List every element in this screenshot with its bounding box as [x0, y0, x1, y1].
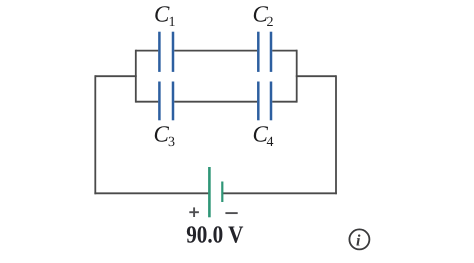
- wire middle left stub: [95, 75, 136, 77]
- wire middle right stub: [296, 75, 336, 77]
- wire top edge middle segment: [174, 50, 257, 52]
- wire outer left vertical: [94, 75, 96, 194]
- battery plus sign: [189, 207, 199, 217]
- wire bottom edge right segment: [272, 101, 297, 103]
- wire bottom battery to right: [222, 192, 337, 194]
- wire bottom edge left segment: [136, 101, 159, 103]
- battery negative plate: [221, 182, 223, 203]
- battery positive plate: [208, 167, 211, 217]
- wire bottom left to battery: [94, 192, 209, 194]
- capacitor C3: [159, 82, 173, 121]
- capacitor C1: [159, 32, 173, 72]
- capacitor C4: [258, 82, 271, 121]
- svg-text:4: 4: [267, 135, 274, 150]
- svg-text:3: 3: [168, 135, 175, 150]
- info icon: [349, 229, 369, 249]
- wire top edge left segment: [136, 50, 159, 52]
- wire left edge of parallel block: [135, 50, 137, 103]
- wire bottom edge middle segment: [174, 101, 257, 103]
- wire right edge of parallel block: [296, 50, 298, 103]
- svg-text:1: 1: [169, 15, 176, 30]
- svg-text:2: 2: [267, 15, 274, 30]
- battery minus sign: [225, 212, 237, 214]
- capacitor C2: [258, 32, 271, 72]
- wire top edge right segment: [272, 50, 297, 52]
- svg-text:90.0 V: 90.0 V: [186, 221, 243, 248]
- wire outer right vertical: [335, 75, 337, 194]
- svg-text:i: i: [356, 233, 361, 250]
